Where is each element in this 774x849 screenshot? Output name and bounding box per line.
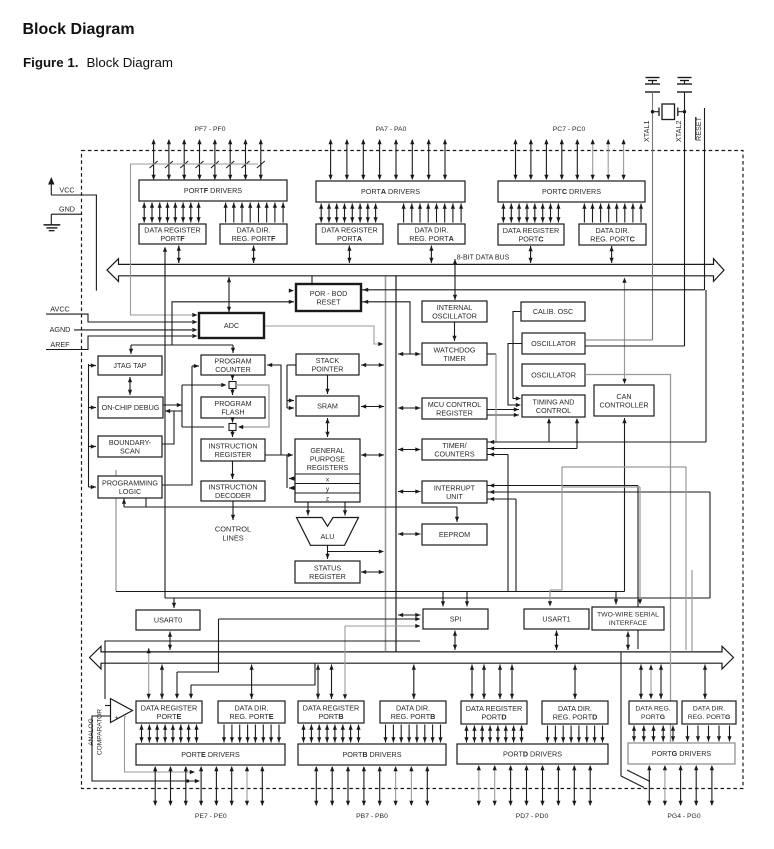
PORTF pin arrow — [199, 140, 201, 179]
PORTD pin arrow — [494, 766, 496, 805]
svg-text:PG4 - PG0: PG4 - PG0 — [667, 813, 700, 820]
svg-text:CONTROL: CONTROL — [536, 406, 571, 415]
PORTG pin arrow — [664, 766, 666, 805]
PORTA drivers-register arrows — [320, 204, 322, 223]
gray CPU-core frame — [115, 470, 117, 592]
SPI to rails — [398, 614, 421, 616]
PORTE pin arrow — [261, 767, 263, 805]
left service rail — [88, 364, 90, 487]
into JTAG — [89, 365, 97, 367]
timer/counters — [422, 439, 487, 460]
svg-text:PORTD: PORTD — [481, 712, 506, 721]
crystal Y1 — [662, 104, 675, 120]
interrupt unit to rails — [398, 491, 421, 493]
flash to latch — [232, 419, 234, 423]
PORTC pin arrow — [623, 140, 625, 179]
GPR to ALU — [307, 502, 309, 516]
ADC gray link — [265, 326, 381, 344]
PORTE pin arrow — [170, 767, 172, 805]
into BOUNDARY-SCAN — [89, 446, 97, 448]
general purpose registers — [295, 439, 360, 502]
data dir. reg. PORTF — [220, 224, 287, 244]
svg-text:PORTF: PORTF — [160, 234, 185, 243]
svg-text:AGND: AGND — [50, 325, 71, 334]
PORTF pin slash marks — [150, 161, 158, 168]
PORTB pin arrow — [395, 767, 397, 805]
instruction decoder — [201, 481, 265, 501]
PORTC pin arrow — [530, 140, 532, 179]
USART1 to bus — [556, 631, 558, 651]
svg-text:PE7 - PE0: PE7 - PE0 — [195, 813, 227, 820]
SRAM-GPR link — [327, 418, 329, 437]
ALU to status register — [327, 545, 329, 559]
SPI feed gray from PORTB link — [345, 625, 418, 627]
ALU result to bus — [328, 551, 382, 553]
svg-text:REGISTER: REGISTER — [215, 450, 252, 459]
latch to flash — [232, 389, 234, 396]
svg-text:PORTG DRIVERS: PORTG DRIVERS — [652, 749, 712, 758]
PORTA pin arrow — [379, 140, 381, 179]
data register PORTC — [498, 224, 564, 245]
status register to rails — [361, 571, 384, 573]
JTAG TAP — [98, 356, 162, 375]
data dir. reg. PORTB — [380, 701, 446, 723]
data register PORTB — [298, 701, 364, 723]
PORTF pin arrow — [183, 140, 185, 179]
PORTD pin arrow — [557, 766, 559, 805]
svg-text:AREF: AREF — [50, 340, 70, 349]
svg-text:PF7 - PF0: PF7 - PF0 — [195, 126, 226, 133]
svg-text:XTAL1: XTAL1 — [642, 121, 651, 142]
ADC to bus — [228, 277, 230, 312]
svg-text:PORTE DRIVERS: PORTE DRIVERS — [181, 750, 240, 759]
PORTB pin arrow — [315, 767, 317, 805]
instruction register — [201, 439, 265, 461]
capacitor — [677, 83, 692, 85]
ddr G feed — [704, 665, 706, 700]
svg-text:PORTC DRIVERS: PORTC DRIVERS — [542, 187, 601, 196]
data dir. reg. PORTA — [398, 224, 465, 244]
svg-text:COUNTER: COUNTER — [215, 365, 251, 374]
timing/control bottom feeds — [488, 441, 707, 443]
USART0 feed line — [165, 597, 710, 599]
RESET net — [704, 108, 706, 290]
ddr A to bus — [430, 246, 432, 264]
PORTF pin arrow — [214, 140, 216, 179]
ground — [678, 77, 692, 79]
data dir. reg. PORTE — [218, 701, 285, 723]
boundary-scan — [98, 436, 162, 457]
data register PORTE — [136, 701, 202, 723]
SPI feed from PORTE link — [219, 618, 419, 620]
programming logic lower links — [123, 499, 125, 508]
svg-text:GND: GND — [59, 205, 75, 214]
data dir. reg. PORTC — [579, 224, 646, 245]
data register PORTF — [139, 224, 206, 244]
oscillator (timer) — [522, 364, 585, 386]
PORTG pin arrow — [711, 766, 713, 805]
watchdog to timer gray link — [488, 353, 497, 355]
svg-text:POINTER: POINTER — [312, 364, 344, 373]
svg-text:PORTA DRIVERS: PORTA DRIVERS — [361, 187, 420, 196]
svg-text:Block Diagram: Block Diagram — [23, 21, 135, 38]
svg-text:REGISTERS: REGISTERS — [307, 463, 349, 472]
PORTG pin arrow — [648, 766, 650, 805]
data register PORTA — [316, 224, 383, 244]
PORTE pin arrow — [185, 767, 187, 805]
PORTA pin arrow — [346, 140, 348, 179]
PORTD pin arrow — [478, 766, 480, 805]
stack pointer — [296, 354, 359, 375]
PORTD pin arrow — [526, 766, 528, 805]
PORTE pin arrow — [231, 767, 233, 805]
ALU — [297, 518, 359, 546]
svg-text:SCAN: SCAN — [120, 446, 140, 455]
port F register to USART line — [164, 250, 166, 598]
ddr E feed — [251, 665, 253, 700]
PORTC pin arrow — [545, 140, 547, 179]
USART0 — [136, 610, 200, 630]
svg-text:z: z — [326, 495, 329, 502]
analog comparator — [111, 699, 133, 723]
svg-text:REG. PORTE: REG. PORTE — [229, 712, 273, 721]
PORTA pin arrow — [411, 140, 413, 179]
data reg. PORTG — [629, 701, 677, 724]
POR-BOD right feeds — [362, 289, 705, 291]
on-chip debug to flash latches — [163, 404, 182, 406]
svg-text:PORTA: PORTA — [337, 234, 362, 243]
calibrated oscillator — [521, 302, 585, 321]
stack pointer to rails — [361, 364, 384, 366]
internal osc to watchdog — [454, 323, 456, 342]
svg-text:INTERFACE: INTERFACE — [609, 620, 648, 627]
EEPROM to rails — [398, 533, 421, 535]
watchdog to rails — [398, 353, 421, 355]
USART1 — [524, 609, 589, 629]
CAN controller — [594, 385, 654, 416]
oscillator (crystal) — [522, 333, 585, 354]
PORTA pin arrow — [362, 140, 364, 179]
PORTF DRIVERS — [139, 180, 287, 201]
svg-text:ON-CHIP DEBUG: ON-CHIP DEBUG — [102, 403, 160, 412]
PORTF drivers-ddr arrows — [225, 203, 227, 223]
into JTAG top — [130, 345, 132, 354]
svg-text:DECODER: DECODER — [215, 491, 251, 500]
IR to GPR — [265, 454, 293, 456]
svg-text:LINES: LINES — [222, 533, 243, 542]
PORTC DRIVERS — [498, 181, 645, 202]
timer/counters to rails — [398, 449, 421, 451]
PORTF pin arrow — [245, 140, 247, 179]
PORTA DRIVERS — [316, 181, 465, 202]
svg-text:OSCILLATOR: OSCILLATOR — [531, 371, 576, 380]
PORTC pin arrow — [561, 140, 563, 179]
flash address latch — [229, 382, 236, 389]
svg-text:PORTB: PORTB — [318, 712, 343, 721]
PORTD pin arrow — [589, 766, 591, 805]
PORTG DRIVERS — [628, 743, 735, 764]
svg-text:PA7 - PA0: PA7 - PA0 — [376, 126, 407, 133]
PORTB pin arrow — [379, 767, 381, 805]
svg-text:JTAG TAP: JTAG TAP — [113, 361, 146, 370]
svg-text:CONTROLLER: CONTROLLER — [599, 400, 648, 409]
PORTB pin arrow — [363, 767, 365, 805]
svg-text:CONTROL: CONTROL — [215, 525, 251, 534]
SPI — [423, 609, 488, 629]
svg-text:PORTC: PORTC — [518, 234, 543, 243]
PORTA pin arrow — [428, 140, 430, 179]
comparator input links — [105, 641, 420, 699]
serial programming line — [124, 506, 457, 508]
into ON-CHIP DEBUG — [89, 407, 97, 409]
svg-text:OSCILLATOR: OSCILLATOR — [531, 339, 576, 348]
PORTE DRIVERS — [136, 744, 285, 765]
svg-text:Figure 1.Block Diagram: Figure 1.Block Diagram — [23, 55, 173, 70]
into EEPROM — [456, 507, 458, 522]
data dir. reg. PORTD — [542, 701, 608, 724]
svg-text:CALIB. OSC: CALIB. OSC — [533, 307, 573, 316]
svg-text:EEPROM: EEPROM — [439, 530, 470, 539]
svg-text:PB7 - PB0: PB7 - PB0 — [356, 813, 388, 820]
svg-text:REG. PORTA: REG. PORTA — [409, 234, 454, 243]
svg-text:PD7 - PD0: PD7 - PD0 — [516, 813, 549, 820]
svg-text:8-BIT DATA BUS: 8-BIT DATA BUS — [457, 255, 510, 262]
svg-text:REG. PORTF: REG. PORTF — [232, 234, 276, 243]
gray right-side frame — [562, 466, 686, 468]
PORTB pin arrow — [347, 767, 349, 805]
svg-text:PORTG: PORTG — [641, 714, 665, 721]
timer osc diagonal taps — [620, 652, 622, 776]
MCU control to rails — [398, 407, 421, 409]
PC to latch — [232, 376, 234, 381]
ddr D feed — [574, 665, 576, 700]
USART0 to bus — [169, 632, 171, 651]
data register PORTD — [461, 701, 527, 724]
capacitor — [645, 83, 660, 85]
PORTC pin arrow — [592, 140, 594, 179]
PORTC pin arrow — [576, 140, 578, 179]
PORTG pin arrow — [695, 766, 697, 805]
svg-text:TWO-WIRE SERIAL: TWO-WIRE SERIAL — [597, 612, 659, 619]
internal oscillator — [422, 301, 487, 322]
svg-text:REG. PORTG: REG. PORTG — [688, 714, 731, 721]
svg-text:PORTD DRIVERS: PORTD DRIVERS — [503, 750, 562, 759]
into TWI — [615, 592, 617, 605]
data dir. reg. PORTG — [682, 701, 736, 724]
PORTD DRIVERS — [457, 744, 608, 764]
interrupt unit — [422, 481, 487, 503]
ddr B feed — [413, 665, 415, 700]
MCU control register — [422, 398, 487, 419]
timer third link — [488, 454, 509, 456]
TWI to bus — [627, 632, 629, 651]
svg-text:VCC: VCC — [59, 186, 74, 195]
ddr C to bus — [611, 246, 613, 263]
PORTB pin arrow — [410, 767, 412, 805]
ground symbol — [44, 224, 61, 226]
PORTE pin arrow — [200, 767, 202, 805]
svg-text:XTAL2: XTAL2 — [674, 121, 683, 142]
svg-text:REGISTER: REGISTER — [436, 408, 473, 417]
X Y Z address links — [286, 455, 288, 488]
PORTE pin arrow — [246, 767, 248, 805]
PORTD pin arrow — [542, 766, 544, 805]
internal oscillator to bus — [454, 259, 456, 300]
decoder to control lines — [232, 501, 234, 520]
program flash — [201, 397, 265, 418]
data bus (lower) — [90, 646, 734, 669]
PORTF pin arrow — [229, 140, 231, 179]
8-bit data bus (upper) — [107, 259, 724, 282]
timing and control — [522, 395, 585, 417]
gray latch loop — [236, 385, 269, 427]
SPI to bus — [454, 631, 456, 651]
svg-text:TIMER: TIMER — [443, 354, 465, 363]
PORTC drivers-ddr arrows — [583, 204, 585, 223]
oscillator-XTAL links — [585, 339, 653, 341]
POR-BOD top feed — [311, 276, 313, 283]
boundary scan link — [162, 411, 174, 444]
PORTF drivers-register arrows — [143, 203, 145, 223]
gray tap line from PORTF pins to ADC — [131, 164, 259, 315]
watchdog timer — [422, 343, 487, 365]
POR-BOD left feeds — [289, 289, 294, 293]
SP address link — [287, 364, 296, 366]
svg-text:LOGIC: LOGIC — [119, 487, 141, 496]
reg C to bus — [530, 246, 532, 263]
EEPROM — [422, 524, 487, 545]
XTAL1 net — [652, 92, 654, 340]
SP to SRAM — [327, 376, 329, 395]
timing feeds from MCU control — [488, 409, 520, 411]
JTAG/ON-CHIP link — [129, 377, 131, 395]
status register — [295, 561, 360, 583]
PORTC pin arrow — [515, 140, 517, 179]
two-wire serial interface — [592, 607, 664, 630]
reg F to bus — [178, 246, 180, 264]
ground — [646, 77, 660, 79]
black mid rail — [395, 276, 397, 652]
svg-text:ADC: ADC — [224, 321, 239, 330]
PORTF pin arrow — [153, 140, 155, 179]
PORTA pin arrow — [444, 140, 446, 179]
VCC pin — [50, 184, 52, 195]
IR to decoder — [232, 461, 234, 479]
reset distribution to JTAG and PC — [131, 344, 233, 346]
svg-text:+: + — [115, 715, 119, 722]
into PC top — [232, 345, 234, 353]
svg-text:ALU: ALU — [321, 532, 335, 541]
ADC — [199, 313, 264, 338]
gray right vertical — [691, 570, 693, 652]
PORTE pin arrow — [215, 767, 217, 805]
gray CAN feed from bus — [624, 280, 626, 379]
PORTD pin arrow — [573, 766, 575, 805]
svg-text:PC7 - PC0: PC7 - PC0 — [553, 126, 586, 133]
svg-text:REGISTER: REGISTER — [309, 572, 346, 581]
program counter — [201, 355, 265, 375]
PORTC drivers-register arrows — [502, 204, 504, 223]
svg-text:REG. PORTB: REG. PORTB — [391, 712, 436, 721]
dashed chip boundary — [82, 151, 744, 789]
PORTE reg top feeds — [148, 648, 150, 699]
svg-text:PORTE: PORTE — [157, 712, 182, 721]
svg-text:REG. PORTC: REG. PORTC — [590, 234, 635, 243]
svg-text:SRAM: SRAM — [317, 402, 338, 411]
SRAM to rails — [361, 406, 384, 408]
PORTE pin arrow — [154, 767, 156, 805]
POR-BOD RESET U-rst — [296, 284, 361, 311]
svg-text:REG. PORTD: REG. PORTD — [553, 712, 598, 721]
peripheral serial line — [116, 591, 625, 593]
PORTD pin arrow — [510, 766, 512, 805]
gray mid rail — [385, 277, 387, 652]
prog logic to PC — [162, 366, 192, 485]
latch to IR — [232, 431, 234, 438]
svg-text:USART0: USART0 — [154, 616, 182, 625]
PORTC pin arrow — [607, 140, 609, 179]
PORTB pin arrow — [426, 767, 428, 805]
PORTB pin arrow — [331, 767, 333, 805]
SRAM — [296, 396, 359, 416]
programming logic — [98, 476, 162, 498]
svg-text:USART1: USART1 — [542, 615, 570, 624]
gray TWI feed — [562, 486, 640, 488]
interrupt unit right links — [488, 485, 639, 487]
PORTB DRIVERS — [298, 744, 446, 765]
XTAL2 net — [684, 92, 686, 346]
ddr F to bus — [253, 246, 255, 264]
PORTG pin arrow — [680, 766, 682, 805]
PORTF pin arrow — [168, 140, 170, 179]
svg-text:SPI: SPI — [450, 615, 462, 624]
into SPI — [466, 592, 468, 607]
comparator gray link — [125, 717, 193, 772]
oscillator to timing — [508, 344, 522, 406]
on-chip debug — [98, 397, 163, 418]
svg-text:AVCC: AVCC — [50, 305, 69, 314]
reg A to bus — [348, 246, 350, 264]
into SPI — [442, 592, 444, 607]
CAN bottom feed — [624, 418, 626, 592]
svg-text:FLASH: FLASH — [221, 407, 244, 416]
GPR to rails — [361, 454, 384, 456]
svg-text:PORTF DRIVERS: PORTF DRIVERS — [184, 186, 242, 195]
calib osc to timing — [513, 312, 521, 399]
into USART0 — [173, 598, 175, 608]
flash data latch — [229, 424, 236, 431]
svg-text:COUNTERS: COUNTERS — [434, 449, 475, 458]
PORTA pin arrow — [330, 140, 332, 179]
svg-text:DATA DIR.: DATA DIR. — [693, 706, 725, 713]
svg-text:UNIT: UNIT — [446, 492, 463, 501]
svg-text:PORTB DRIVERS: PORTB DRIVERS — [343, 750, 402, 759]
PORTF pin arrow — [260, 140, 262, 179]
PC right link — [267, 365, 281, 455]
svg-text:DATA REG.: DATA REG. — [635, 706, 670, 713]
PORTA pin arrow — [395, 140, 397, 179]
svg-text:RESET: RESET — [317, 297, 342, 306]
timer oscillator gray line — [585, 375, 671, 743]
PORTA drivers-ddr arrows — [403, 204, 405, 223]
svg-text:OSCILLATOR: OSCILLATOR — [432, 311, 477, 320]
into PROGRAMMING LOGIC — [89, 486, 97, 488]
